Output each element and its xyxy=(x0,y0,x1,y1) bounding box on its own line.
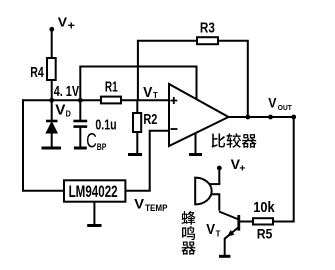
svg-text:0.1u: 0.1u xyxy=(95,117,116,134)
svg-text:V: V xyxy=(134,196,144,212)
svg-text:R5: R5 xyxy=(257,225,273,241)
svg-text:V: V xyxy=(58,14,68,29)
wire transistor emitter to ground xyxy=(224,238,226,255)
svg-text:R4: R4 xyxy=(30,64,44,81)
wire feedback vertical to V_T node xyxy=(137,41,139,100)
wire R4 to 4.1V rail xyxy=(51,80,53,100)
wire feedback top right xyxy=(218,41,248,117)
resistor R5 xyxy=(253,218,273,224)
buzzer dome xyxy=(195,178,211,205)
wire inverting input xyxy=(150,131,169,191)
junction output rail corner xyxy=(291,115,296,120)
wire LM94022 output V_TEMP xyxy=(125,190,150,192)
resistor R1 xyxy=(101,97,121,104)
node V+ terminal buzzer xyxy=(217,166,222,171)
ground below LM94022 xyxy=(87,224,101,227)
wire output rail down to R5 xyxy=(273,116,294,222)
diode VD triangle xyxy=(46,122,57,133)
capacitor C_BP plates xyxy=(73,121,87,127)
wire zener branch xyxy=(51,100,53,121)
ground below op-amp xyxy=(189,153,202,156)
wire feedback top left xyxy=(137,40,197,42)
svg-text:BP: BP xyxy=(97,142,107,152)
svg-text:+: + xyxy=(68,21,76,33)
ground below transistor emitter xyxy=(219,255,230,258)
svg-text:T: T xyxy=(153,91,158,100)
junction 4.1V / CBP / riser xyxy=(78,98,83,103)
wire R5 to transistor base xyxy=(240,221,253,223)
wire 4.1V rail xyxy=(23,99,169,101)
wire buzzer bottom lead to collector xyxy=(211,194,220,210)
wire cap branch xyxy=(79,100,81,120)
wire V+ feed to R4 xyxy=(51,29,53,58)
svg-text:V: V xyxy=(143,84,152,101)
resistor R3 xyxy=(197,37,218,44)
transistor emitter arrow xyxy=(227,230,234,237)
wire op-amp ground pin xyxy=(195,132,197,154)
junction output / feedback xyxy=(245,115,250,120)
svg-text:V: V xyxy=(55,101,65,118)
wire LM94022 ground xyxy=(93,202,95,225)
wire op-amp output xyxy=(228,116,295,118)
svg-text:LM94022: LM94022 xyxy=(69,183,118,201)
svg-text:10k: 10k xyxy=(253,199,275,216)
op-amp comparator triangle xyxy=(169,84,229,146)
op-amp plus input marker xyxy=(170,97,177,104)
transistor VT base bar xyxy=(237,215,240,231)
svg-text:TEMP: TEMP xyxy=(145,203,167,213)
resistor R2 xyxy=(133,113,141,132)
IC LM94022 box xyxy=(64,180,125,201)
op-amp minus input marker xyxy=(171,128,178,130)
svg-text:R1: R1 xyxy=(105,79,118,96)
svg-text:V: V xyxy=(268,95,277,111)
label buzzer (fengmingqi) xyxy=(181,211,195,225)
wire left rail to LM94022 xyxy=(23,99,64,190)
wire 4.1V riser to op-amp supply xyxy=(80,67,196,101)
wire buzzer top lead xyxy=(210,183,221,185)
diode VD cathode bar xyxy=(46,120,58,123)
transistor collector diagonal xyxy=(219,212,239,220)
label comparator (bijiaoqi) xyxy=(212,134,226,148)
wire buzzer V+ riser xyxy=(218,169,220,184)
svg-text:OUT: OUT xyxy=(278,103,292,112)
svg-text:4. 1V: 4. 1V xyxy=(54,83,79,100)
ground below R2 xyxy=(128,153,142,156)
node VOUT terminal xyxy=(268,115,273,120)
transistor emitter diagonal xyxy=(225,227,239,239)
node V+ terminal top xyxy=(49,27,54,32)
resistor R4 xyxy=(47,58,56,80)
svg-text:D: D xyxy=(66,109,71,118)
svg-text:+: + xyxy=(239,163,245,175)
wire R2 top xyxy=(136,100,138,113)
svg-text:R2: R2 xyxy=(143,111,157,128)
svg-text:T: T xyxy=(216,229,221,238)
svg-text:C: C xyxy=(86,129,97,152)
junction 4.1V / R4 / VD xyxy=(49,98,54,103)
svg-text:V: V xyxy=(206,221,215,238)
ground below bypass cap xyxy=(74,147,87,150)
svg-text:R3: R3 xyxy=(200,20,215,37)
ground below zener xyxy=(42,147,62,150)
wire R2 bottom xyxy=(136,132,138,154)
